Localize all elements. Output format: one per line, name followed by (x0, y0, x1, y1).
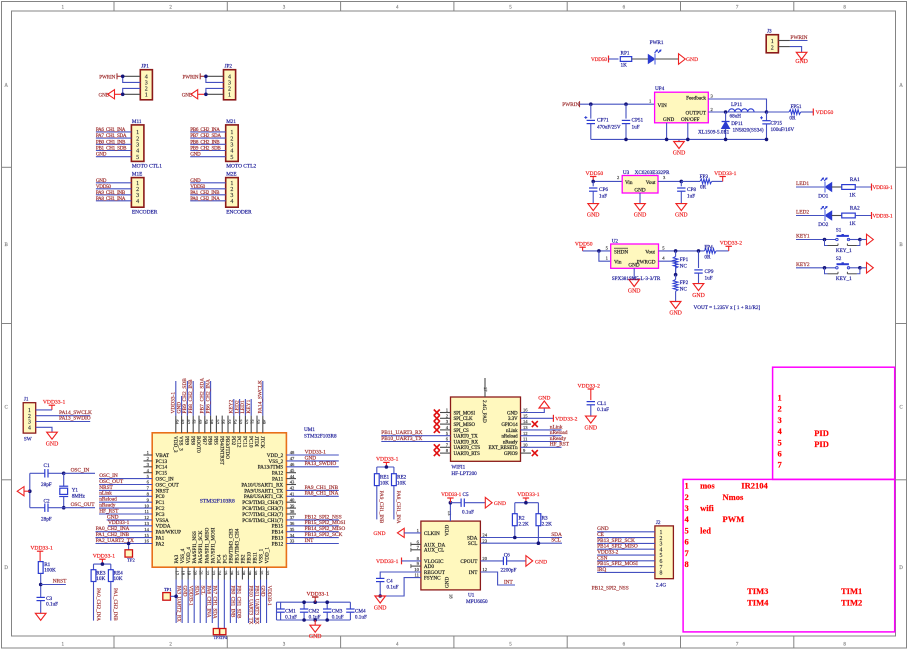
svg-text:PB11_UART3_RX: PB11_UART3_RX (254, 586, 260, 625)
svg-text:55: 55 (227, 420, 232, 425)
svg-text:PB8_CH2_INB: PB8_CH2_INB (188, 379, 194, 414)
svg-text:HF-LPT200: HF-LPT200 (451, 471, 477, 477)
svg-text:IR2104: IR2104 (741, 481, 768, 491)
svg-text:GND: GND (96, 152, 107, 158)
svg-text:RA2: RA2 (850, 206, 860, 212)
svg-text:1: 1 (145, 93, 148, 99)
svg-text:PWR1: PWR1 (650, 40, 664, 46)
svg-text:S2: S2 (836, 256, 842, 262)
svg-text:PC12: PC12 (236, 436, 242, 448)
svg-text:14: 14 (523, 419, 528, 424)
svg-text:PB9_CH2_SDB: PB9_CH2_SDB (190, 146, 221, 152)
svg-text:PA8_CH1_INA: PA8_CH1_INA (96, 196, 126, 202)
svg-text:PWRIN: PWRIN (790, 35, 807, 41)
svg-text:2: 2 (685, 492, 689, 502)
svg-text:EXT_RESETn: EXT_RESETn (489, 446, 519, 451)
svg-text:UART0_CTS: UART0_CTS (454, 446, 481, 451)
svg-text:VDD33-1: VDD33-1 (376, 559, 399, 565)
svg-text:VDD33-1: VDD33-1 (873, 214, 894, 220)
svg-text:Feedback: Feedback (686, 96, 706, 102)
svg-text:OSC_IN: OSC_IN (71, 468, 90, 474)
svg-text:VDD33-1: VDD33-1 (441, 492, 462, 498)
svg-text:10K: 10K (380, 481, 389, 487)
svg-text:VDD33-1: VDD33-1 (714, 171, 737, 177)
svg-text:1: 1 (230, 130, 233, 136)
svg-text:C4: C4 (387, 578, 393, 584)
svg-text:4: 4 (230, 149, 233, 155)
svg-text:4: 4 (28, 426, 31, 432)
svg-text:GND: GND (634, 188, 645, 194)
svg-text:PB7_CH2_SDA: PB7_CH2_SDA (190, 133, 221, 139)
svg-text:GND: GND (374, 606, 387, 612)
svg-text:GND: GND (373, 531, 385, 537)
svg-text:VDD33-1: VDD33-1 (873, 185, 894, 191)
svg-text:19: 19 (187, 571, 192, 576)
svg-text:A: A (899, 84, 903, 89)
svg-text:60: 60 (198, 420, 203, 425)
svg-text:FP2: FP2 (680, 280, 689, 286)
svg-text:100K: 100K (44, 568, 56, 574)
svg-text:17: 17 (483, 387, 488, 392)
svg-text:5: 5 (136, 155, 139, 161)
svg-text:TIM4: TIM4 (747, 597, 769, 607)
svg-text:30: 30 (253, 571, 258, 576)
svg-text:3.3V: 3.3V (508, 417, 518, 422)
svg-text:SCL: SCL (551, 538, 561, 544)
svg-text:PA0_CH2_INA: PA0_CH2_INA (95, 588, 101, 621)
svg-text:SPI_CS: SPI_CS (454, 429, 470, 434)
svg-text:1: 1 (136, 130, 139, 136)
svg-text:PA8_CH1_INA: PA8_CH1_INA (305, 491, 339, 497)
svg-text:1K: 1K (849, 221, 856, 227)
svg-text:2: 2 (778, 404, 782, 414)
svg-text:1uF: 1uF (687, 194, 695, 200)
svg-text:PA7_CH1_SDA: PA7_CH1_SDA (211, 586, 217, 619)
svg-text:FP1: FP1 (680, 257, 689, 263)
svg-text:470uF/25V: 470uF/25V (597, 124, 621, 130)
svg-text:KEY1: KEY1 (796, 234, 810, 240)
svg-text:RA1: RA1 (850, 177, 860, 183)
svg-text:PB6: PB6 (207, 436, 213, 445)
svg-text:0.1uF: 0.1uF (332, 615, 344, 621)
svg-text:50: 50 (256, 420, 261, 425)
svg-text:KEY_1: KEY_1 (836, 248, 852, 254)
svg-text:PWRIN: PWRIN (562, 102, 579, 108)
svg-text:INT: INT (504, 579, 514, 585)
svg-text:PB0_CH1_INB: PB0_CH1_INB (230, 586, 236, 618)
svg-text:TP4: TP4 (220, 635, 228, 640)
svg-text:MOTO CTL1: MOTO CTL1 (132, 164, 162, 170)
svg-text:JTDI: JTDI (253, 436, 259, 447)
svg-text:nLink: nLink (506, 429, 518, 434)
svg-text:CL1: CL1 (597, 401, 607, 407)
svg-text:SPX3819M5-L-3-3/TR: SPX3819M5-L-3-3/TR (612, 276, 661, 282)
svg-text:18: 18 (181, 571, 186, 576)
svg-text:CP71: CP71 (597, 118, 609, 124)
svg-text:D: D (4, 566, 8, 571)
svg-text:CP9: CP9 (705, 269, 714, 275)
svg-text:GND: GND (99, 92, 110, 98)
svg-text:PA14_SWCLK: PA14_SWCLK (258, 380, 264, 413)
svg-text:6: 6 (778, 449, 782, 459)
svg-text:PB4/JNTRST: PB4/JNTRST (218, 436, 224, 466)
svg-text:1: 1 (778, 393, 782, 403)
svg-text:23: 23 (211, 571, 216, 576)
svg-text:PID: PID (814, 439, 829, 449)
svg-text:J1: J1 (24, 397, 29, 403)
svg-text:MPU6050: MPU6050 (466, 599, 488, 605)
svg-text:10: 10 (523, 442, 528, 447)
svg-text:20: 20 (193, 571, 198, 576)
svg-text:52: 52 (244, 420, 249, 425)
svg-text:LP11: LP11 (731, 102, 742, 108)
svg-text:3: 3 (778, 415, 782, 425)
svg-text:PA13_SWDIO: PA13_SWDIO (305, 461, 337, 467)
svg-text:4: 4 (230, 199, 233, 205)
svg-text:UM1: UM1 (304, 427, 315, 433)
svg-text:PB5: PB5 (213, 436, 219, 445)
svg-text:45: 45 (290, 468, 295, 473)
svg-text:C1: C1 (44, 463, 50, 469)
svg-text:VDD50: VDD50 (591, 57, 607, 63)
svg-text:VDD: VDD (445, 525, 451, 536)
svg-text:GND: GND (634, 213, 647, 219)
svg-text:56: 56 (221, 420, 226, 425)
svg-text:SHDN: SHDN (614, 249, 628, 255)
svg-text:UART0_TX: UART0_TX (454, 435, 479, 440)
svg-text:C5: C5 (463, 492, 469, 498)
svg-text:led: led (700, 525, 711, 535)
svg-text:49: 49 (261, 420, 266, 425)
svg-text:10: 10 (144, 503, 149, 508)
svg-text:Vout: Vout (646, 180, 656, 186)
svg-text:59: 59 (203, 420, 208, 425)
svg-text:PB1_CH1_SDB: PB1_CH1_SDB (96, 146, 127, 152)
svg-text:0.1uF: 0.1uF (285, 615, 297, 621)
svg-text:M2E: M2E (226, 172, 236, 178)
svg-text:PB8_CH2_INB: PB8_CH2_INB (190, 139, 220, 145)
svg-text:SCL: SCL (468, 541, 478, 547)
svg-text:LED1: LED1 (796, 181, 809, 187)
svg-text:3: 3 (230, 143, 233, 149)
svg-text:2.4G: 2.4G (656, 582, 666, 588)
svg-text:5: 5 (230, 155, 233, 161)
svg-text:2.2K: 2.2K (519, 521, 529, 527)
svg-text:58: 58 (209, 420, 214, 425)
svg-text:Nmos: Nmos (723, 492, 744, 502)
svg-text:VDD_3: VDD_3 (172, 436, 178, 453)
svg-text:CPOUT: CPOUT (460, 559, 478, 565)
svg-text:25: 25 (223, 571, 228, 576)
svg-text:S1: S1 (836, 228, 842, 234)
svg-text:FP4: FP4 (704, 244, 713, 250)
svg-text:62: 62 (186, 420, 191, 425)
svg-text:STM32F103R8: STM32F103R8 (304, 434, 337, 440)
svg-text:GND: GND (795, 59, 808, 65)
svg-text:PC10: PC10 (247, 436, 253, 448)
svg-text:PB7: PB7 (201, 436, 207, 445)
svg-text:STM32F103R8: STM32F103R8 (200, 498, 235, 504)
svg-text:XL1509-5.0E1: XL1509-5.0E1 (698, 130, 730, 136)
svg-text:J3: J3 (767, 29, 772, 35)
svg-text:1K: 1K (621, 63, 628, 69)
svg-text:32: 32 (265, 571, 270, 576)
svg-text:4: 4 (136, 199, 139, 205)
svg-text:GND: GND (494, 501, 506, 507)
svg-text:wifi: wifi (700, 503, 714, 513)
svg-text:28pF: 28pF (41, 516, 52, 522)
svg-text:68uH: 68uH (730, 114, 742, 120)
svg-text:UART0_RX: UART0_RX (454, 440, 479, 445)
svg-text:MOTO CTL2: MOTO CTL2 (226, 164, 256, 170)
svg-text:2.2K: 2.2K (542, 521, 552, 527)
svg-text:37: 37 (290, 515, 295, 520)
svg-text:VSS_3: VSS_3 (178, 436, 184, 451)
svg-text:KEY_1: KEY_1 (836, 276, 852, 282)
svg-text:CLKIN: CLKIN (424, 531, 440, 537)
svg-text:GND: GND (260, 586, 266, 597)
svg-text:23: 23 (482, 538, 487, 543)
svg-text:PB12_SPI2_NSS: PB12_SPI2_NSS (592, 586, 629, 592)
svg-text:GND: GND (692, 293, 705, 299)
svg-text:1uF: 1uF (599, 194, 607, 200)
svg-text:64: 64 (174, 420, 179, 425)
svg-text:CP51: CP51 (632, 118, 644, 124)
svg-text:SCL: SCL (199, 586, 205, 595)
svg-text:VDD_1: VDD_1 (265, 547, 271, 564)
svg-text:PB3/JTDO: PB3/JTDO (224, 436, 230, 459)
svg-text:VDD33-1: VDD33-1 (517, 492, 540, 498)
svg-text:PWM: PWM (723, 514, 745, 524)
svg-text:U3: U3 (623, 170, 630, 176)
svg-text:PA1_CH2_INB: PA1_CH2_INB (112, 588, 118, 621)
svg-text:10K: 10K (96, 576, 105, 582)
svg-text:PID: PID (814, 428, 829, 438)
svg-text:VDD33-1: VDD33-1 (93, 554, 116, 560)
svg-text:nReady: nReady (503, 440, 518, 445)
svg-text:nReload: nReload (502, 435, 519, 440)
svg-text:PB6_CH2_INA: PB6_CH2_INA (190, 127, 220, 133)
svg-text:TP1: TP1 (164, 587, 172, 592)
svg-text:C6: C6 (504, 552, 510, 558)
svg-text:13: 13 (523, 425, 528, 430)
svg-text:4: 4 (136, 149, 139, 155)
svg-text:VDD33-1: VDD33-1 (266, 586, 272, 607)
svg-text:54: 54 (232, 420, 237, 425)
svg-text:mos: mos (700, 481, 715, 491)
svg-text:PA3_UART2_RX: PA3_UART2_RX (175, 586, 181, 623)
svg-text:12: 12 (144, 515, 149, 520)
svg-text:Vout: Vout (645, 249, 655, 255)
svg-text:VDD33-1: VDD33-1 (30, 546, 53, 552)
svg-text:GND: GND (673, 151, 686, 157)
svg-text:OSC_OUT: OSC_OUT (71, 502, 96, 508)
svg-text:3: 3 (685, 503, 689, 513)
svg-text:0R: 0R (700, 185, 707, 191)
svg-text:PB12: PB12 (272, 541, 284, 547)
svg-text:0.1uF: 0.1uF (46, 602, 58, 608)
svg-text:26: 26 (229, 571, 234, 576)
svg-text:5: 5 (778, 437, 782, 447)
svg-text:AUX_CL: AUX_CL (424, 548, 444, 554)
svg-text:15: 15 (523, 413, 528, 418)
svg-text:KEY1: KEY1 (246, 399, 252, 413)
svg-text:0.1uF: 0.1uF (462, 510, 474, 516)
svg-text:0R: 0R (789, 115, 796, 121)
svg-text:ON/OFF: ON/OFF (681, 117, 700, 123)
svg-text:CP6: CP6 (599, 187, 608, 193)
svg-text:PB10_UART3_TX: PB10_UART3_TX (248, 586, 254, 625)
svg-text:51: 51 (250, 420, 255, 425)
svg-text:12: 12 (482, 567, 487, 572)
svg-text:57: 57 (215, 420, 220, 425)
svg-text:VDD33-2: VDD33-2 (555, 416, 578, 422)
svg-text:PA0_CH2_INA: PA0_CH2_INA (190, 196, 220, 202)
svg-text:PB0_CH1_INB: PB0_CH1_INB (96, 139, 126, 145)
svg-text:22: 22 (205, 571, 210, 576)
svg-text:FSYNC: FSYNC (424, 576, 441, 582)
svg-text:PA13_SWDIO: PA13_SWDIO (59, 416, 91, 422)
svg-text:JTCK: JTCK (259, 436, 265, 449)
svg-text:53: 53 (238, 420, 243, 425)
svg-text:OUTPUT: OUTPUT (686, 111, 707, 117)
svg-text:31: 31 (259, 571, 264, 576)
svg-text:INT: INT (305, 538, 315, 544)
svg-text:GND: GND (181, 586, 187, 597)
svg-text:24: 24 (482, 533, 487, 538)
svg-text:A: A (4, 84, 8, 89)
svg-text:8MHz: 8MHz (72, 493, 86, 499)
svg-text:VDD33-1: VDD33-1 (187, 586, 193, 607)
svg-text:CP15: CP15 (771, 121, 783, 127)
svg-text:39: 39 (290, 503, 295, 508)
svg-text:PB10_UART3_TX: PB10_UART3_TX (381, 436, 422, 442)
svg-text:UP4: UP4 (655, 86, 665, 92)
svg-text:0.1uF: 0.1uF (387, 585, 399, 591)
svg-text:DO2: DO2 (818, 222, 828, 228)
svg-text:2: 2 (771, 45, 774, 51)
svg-text:GND: GND (669, 311, 682, 317)
svg-text:FP3: FP3 (700, 174, 709, 180)
svg-text:SPI_MISO: SPI_MISO (454, 423, 476, 428)
svg-text:CP8: CP8 (687, 187, 696, 193)
svg-text:GND: GND (190, 152, 201, 158)
svg-text:DO1: DO1 (818, 194, 828, 200)
svg-text:TIM3: TIM3 (747, 586, 768, 596)
svg-text:GND: GND (445, 577, 451, 588)
svg-text:UART0_RTS: UART0_RTS (454, 452, 481, 457)
svg-text:M21: M21 (226, 119, 236, 125)
svg-text:5: 5 (685, 525, 689, 535)
svg-text:21: 21 (199, 571, 204, 576)
svg-text:GND: GND (675, 213, 688, 219)
svg-text:44: 44 (290, 474, 295, 479)
svg-text:2200pF: 2200pF (501, 568, 517, 574)
svg-text:D: D (899, 566, 903, 571)
svg-text:GPIO14: GPIO14 (501, 423, 518, 428)
svg-text:C2: C2 (44, 499, 50, 505)
svg-text:VIN: VIN (658, 103, 667, 109)
svg-text:GND: GND (686, 57, 698, 63)
svg-text:24: 24 (217, 571, 222, 576)
svg-text:PWRIN: PWRIN (99, 74, 115, 80)
svg-text:DP11: DP11 (731, 121, 743, 127)
svg-text:28: 28 (241, 571, 246, 576)
svg-text:M11: M11 (132, 119, 142, 125)
svg-text:GND: GND (585, 426, 598, 432)
svg-text:GND: GND (309, 634, 322, 640)
svg-text:0R: 0R (704, 255, 711, 261)
svg-text:17: 17 (175, 571, 180, 576)
svg-text:GND: GND (538, 396, 550, 402)
svg-text:U1: U1 (468, 593, 475, 599)
svg-text:10K: 10K (397, 481, 406, 487)
svg-text:1K: 1K (849, 193, 856, 199)
svg-text:PA7_CH1_SDA: PA7_CH1_SDA (96, 133, 127, 139)
svg-text:FP51: FP51 (791, 104, 802, 110)
svg-text:WIFI1: WIFI1 (451, 464, 465, 470)
svg-text:18: 18 (448, 594, 453, 599)
svg-text:1: 1 (228, 93, 231, 99)
svg-text:PWRIN: PWRIN (183, 74, 199, 80)
svg-text:PD2: PD2 (230, 436, 236, 446)
svg-text:JP2: JP2 (225, 64, 233, 70)
svg-text:PA6_CH1_INA: PA6_CH1_INA (96, 127, 126, 133)
svg-text:63: 63 (180, 420, 185, 425)
svg-text:RP1: RP1 (621, 51, 630, 57)
svg-text:1: 1 (771, 39, 774, 45)
svg-text:NC: NC (680, 263, 688, 269)
svg-text:TIM1: TIM1 (841, 586, 862, 596)
svg-text:2.4G_PAD: 2.4G_PAD (481, 400, 487, 423)
svg-text:29: 29 (247, 571, 252, 576)
svg-text:BOOT0: BOOT0 (195, 436, 201, 453)
svg-text:SDA: SDA (193, 586, 199, 596)
svg-text:ENCODER: ENCODER (226, 210, 252, 216)
svg-text:SPI_MOSI: SPI_MOSI (454, 411, 476, 416)
svg-text:PB8: PB8 (189, 436, 195, 445)
svg-text:J2: J2 (656, 520, 661, 526)
svg-text:HF_RST: HF_RST (550, 442, 570, 448)
svg-text:27: 27 (235, 571, 240, 576)
svg-text:4: 4 (228, 75, 231, 81)
svg-text:VDD33-2: VDD33-2 (720, 241, 743, 247)
svg-text:0.1uF: 0.1uF (597, 407, 609, 413)
svg-text:GND: GND (46, 442, 59, 448)
svg-text:U2: U2 (612, 238, 619, 244)
svg-text:SW: SW (24, 437, 32, 443)
svg-text:1N5820(SS34): 1N5820(SS34) (733, 126, 764, 133)
svg-text:KEY2: KEY2 (796, 262, 810, 268)
svg-text:10: 10 (414, 567, 419, 572)
svg-text:12: 12 (523, 431, 528, 436)
svg-text:GND: GND (182, 92, 193, 98)
svg-text:PB9: PB9 (184, 436, 190, 445)
svg-text:61: 61 (192, 420, 197, 425)
svg-text:GND: GND (507, 411, 518, 416)
svg-text:PB6_CH2_INA: PB6_CH2_INA (205, 379, 211, 414)
svg-text:VDD50: VDD50 (816, 110, 834, 116)
svg-text:VOUT = 1.235V x [ 1 + R1/R2]: VOUT = 1.235V x [ 1 + R1/R2] (694, 305, 761, 311)
svg-text:GND: GND (628, 263, 639, 269)
svg-text:1uF: 1uF (705, 275, 713, 281)
svg-text:0.1uF: 0.1uF (355, 615, 367, 621)
svg-text:TIM2: TIM2 (841, 597, 862, 607)
svg-text:8: 8 (660, 571, 663, 577)
svg-text:4: 4 (145, 75, 148, 81)
svg-text:Vin: Vin (614, 260, 622, 266)
svg-text:GND: GND (587, 213, 600, 219)
